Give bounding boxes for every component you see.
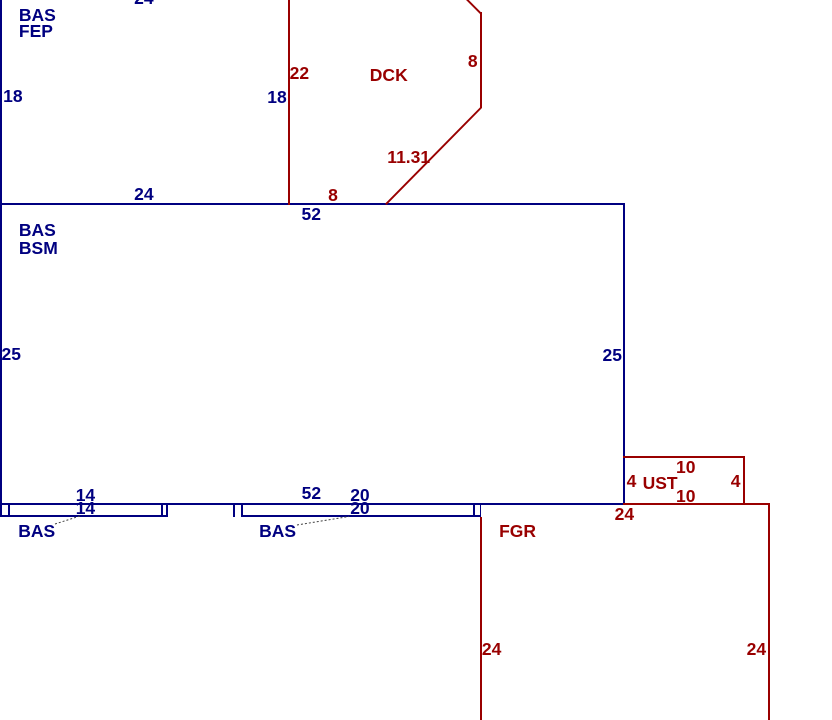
label: 24 (FGR right dim, red) xyxy=(747,641,766,658)
label: 52 (BSM top, below line) xyxy=(302,206,321,223)
label: BAS (FEP area) xyxy=(19,7,56,24)
porch BAS14: inner tick left xyxy=(8,503,10,517)
wall: DCK lower diagonal (11.31) xyxy=(386,108,481,205)
label: 52 (BSM bottom dim) xyxy=(302,485,321,502)
label: UST area name (red) xyxy=(643,475,678,492)
porch BAS14: right end tick xyxy=(166,503,168,517)
label: 8 (DCK right, red) xyxy=(468,53,478,70)
label: 24 (BSM top-left segment) xyxy=(134,186,153,203)
wall: DCK right edge (x=480) xyxy=(480,12,482,108)
label: BAS (BSM area) xyxy=(19,222,56,239)
porch BAS14: bottom edge xyxy=(0,515,168,517)
porch BAS20: inner tick right xyxy=(473,503,475,517)
wall: left edge of FEP/BSM/porch (x=0, y0-516) xyxy=(0,0,2,517)
label: FEP xyxy=(19,23,53,40)
wall: UST bottom + FGR top edge (red) xyxy=(623,503,770,505)
label: 4 (UST right, red) xyxy=(731,473,741,490)
porch BAS20: bottom edge xyxy=(241,515,482,517)
label: 24 (FGR left dim, red) xyxy=(482,641,501,658)
label: 25 (BSM right) xyxy=(603,347,622,364)
label: 24 (FEP top, cut off) xyxy=(134,0,153,7)
porch BAS20: right end xyxy=(480,503,482,517)
label: 20 (porch bottom dim) xyxy=(350,500,369,517)
label: FGR area name (red) xyxy=(499,523,536,540)
label: 14 (porch top dim) xyxy=(76,487,95,504)
label: 4 (UST left, red) xyxy=(627,473,637,490)
porch BAS20: left end xyxy=(241,503,243,517)
label: BAS (right porch) xyxy=(259,523,296,540)
wall: BSM right edge (x=624) xyxy=(623,203,625,505)
wall: BSM bottom edge (y=503) xyxy=(0,503,625,505)
label: 11.31 (DCK diagonal, red) xyxy=(387,149,430,166)
label: 18 (FEP right) xyxy=(267,89,286,106)
wall: FGR left edge xyxy=(480,517,482,720)
label: 20 (porch top dim) xyxy=(350,487,369,504)
wall: UST top edge xyxy=(623,456,745,458)
leader dotted line from left BAS label xyxy=(55,516,80,524)
leader dotted line from right BAS label xyxy=(297,517,349,526)
label: BSM xyxy=(19,240,58,257)
label: 25 (BSM left) xyxy=(2,346,21,363)
label: BAS (left porch) xyxy=(18,523,55,540)
label: 10 (UST top, red) xyxy=(676,459,695,476)
isolated tick left of BAS20 porch xyxy=(233,503,235,516)
porch BAS14: inner tick right xyxy=(161,503,163,517)
label: 8 (DCK bottom, red) xyxy=(328,187,338,204)
label: 24 (FGR top dim, red) xyxy=(615,506,634,523)
label: 10 (UST bottom, red) xyxy=(676,488,695,505)
label: 22 (DCK left, red) xyxy=(290,65,309,82)
wall: DCK top-right diagonal xyxy=(466,0,481,14)
wall: UST right edge xyxy=(743,456,745,505)
wall: FEP/DCK divider (x=287, red) xyxy=(288,0,290,205)
label: DCK area name xyxy=(370,67,408,84)
wall: main horizontal between FEP/DCK and BSM (y=203) xyxy=(0,203,625,205)
label: 14 (porch bottom dim) xyxy=(76,500,95,517)
wall: FGR right edge xyxy=(768,503,770,720)
label: 18 (FEP left) xyxy=(3,88,22,105)
